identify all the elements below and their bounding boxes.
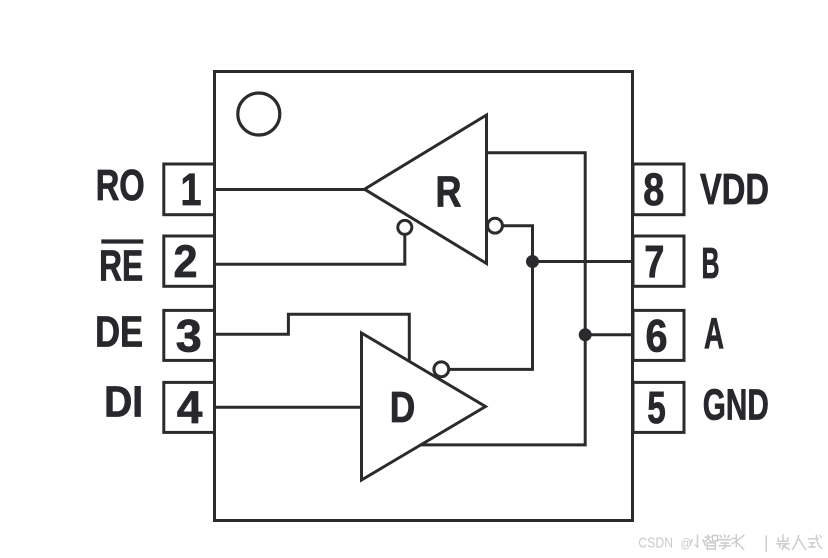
wire net B stub to pin 7 (533, 260, 634, 263)
RE overline (101, 239, 143, 243)
svg-text:RE: RE (99, 241, 143, 290)
svg-text:@: @ (681, 535, 692, 550)
char zhi (705, 535, 718, 549)
wire net A stub to pin 6 (585, 333, 633, 336)
svg-text:GND: GND (703, 380, 769, 429)
svg-text:CSDN: CSDN (638, 534, 673, 551)
svg-text:3: 3 (176, 310, 202, 361)
char xue (719, 535, 731, 549)
junction node A at pin6 rail (579, 328, 592, 341)
svg-text:B: B (702, 239, 720, 288)
IC body (215, 72, 633, 521)
svg-text:DI: DI (104, 377, 143, 426)
svg-text:4: 4 (177, 382, 203, 433)
pin box 1 (164, 164, 215, 215)
pin box 3 (164, 310, 215, 360)
svg-text:7: 7 (644, 236, 664, 287)
char ru (793, 535, 806, 549)
svg-text:D: D (390, 383, 416, 432)
wire net B: R bubble to D bubble (449, 226, 533, 370)
pin box 5 (633, 382, 684, 432)
junction node B at pin7 rail (526, 255, 539, 268)
char xiao (690, 535, 706, 547)
wire DI pin4 to D input (215, 406, 362, 409)
svg-text:A: A (704, 309, 724, 358)
pin box 6 (633, 310, 684, 360)
char chang (732, 535, 744, 550)
svg-text:2: 2 (174, 236, 198, 287)
svg-text:RO: RO (96, 161, 145, 210)
char shi (808, 535, 821, 548)
svg-text:DE: DE (95, 308, 143, 357)
op-amp-style receiver triangle R (365, 115, 487, 264)
driver output bubble (net B) (434, 362, 449, 377)
op-amp-style driver triangle D (362, 333, 486, 480)
receiver enable bubble (398, 220, 412, 234)
pin box 2 (164, 236, 215, 286)
svg-text:R: R (436, 167, 462, 216)
pin-1 indicator circle (238, 93, 280, 135)
pin box 7 (633, 236, 684, 286)
watermark CJK characters (drawn) (690, 535, 822, 552)
wire net A: R input top, right rail, to D lower output (420, 153, 585, 445)
wire RO pin1 to R apex (215, 188, 367, 191)
separator bar (765, 536, 767, 551)
wire RE pin2 to R enable bubble (215, 234, 405, 264)
svg-text:5: 5 (647, 382, 666, 433)
svg-text:VDD: VDD (700, 165, 769, 214)
svg-text:6: 6 (646, 310, 668, 361)
wire DE pin3 to D enable (215, 314, 410, 362)
pin box 8 (633, 164, 684, 215)
svg-text:8: 8 (643, 164, 664, 215)
receiver input bubble (net B) (488, 218, 503, 233)
pin box 4 (164, 382, 215, 432)
svg-text:1: 1 (181, 164, 202, 215)
char qian (777, 535, 789, 550)
